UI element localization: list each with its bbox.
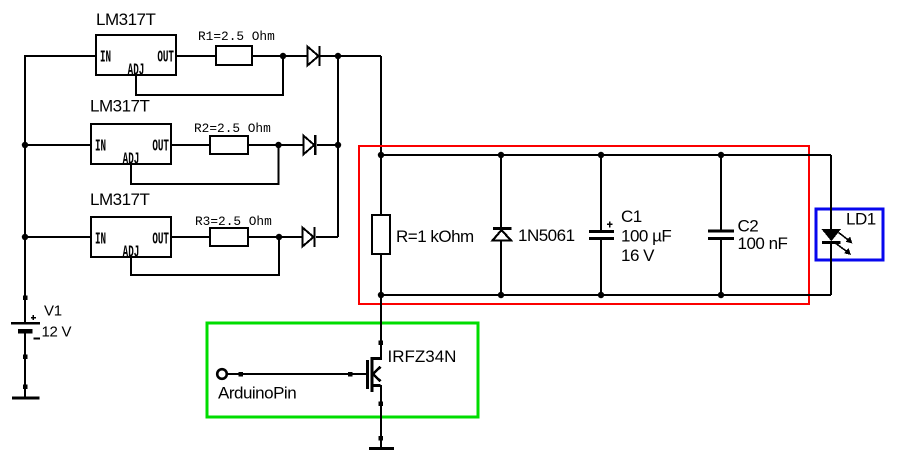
svg-text:R3=2.5 Ohm: R3=2.5 Ohm xyxy=(195,214,272,229)
node junction bottom bus at 1N5061 xyxy=(498,292,504,298)
resistor R3 body xyxy=(210,228,248,246)
diode D1 triangle xyxy=(308,47,319,66)
node junction left rail row3 xyxy=(22,234,28,240)
wire D2 to collector rail xyxy=(317,144,338,146)
transistor Q1 source lead xyxy=(373,384,381,387)
wire D3 to collector rail xyxy=(316,236,338,238)
diode D1 cathode bar xyxy=(318,46,320,66)
wire battery to ground xyxy=(24,333,26,397)
svg-text:IN: IN xyxy=(95,231,106,250)
node junction bottom bus at R xyxy=(378,292,384,298)
svg-text:OUT: OUT xyxy=(152,138,169,157)
svg-text:LM317T: LM317T xyxy=(96,10,155,29)
svg-text:IN: IN xyxy=(100,49,111,68)
node junction left rail row2 xyxy=(22,142,28,148)
diode D2 cathode bar xyxy=(314,135,316,155)
wire ADJ U1 feedback loop xyxy=(136,56,283,95)
svg-text:OUT: OUT xyxy=(157,49,174,68)
node junction R1 output / ADJ feedback xyxy=(280,53,286,59)
svg-text:V1: V1 xyxy=(44,303,62,320)
wire D1 to top node xyxy=(318,55,381,57)
wire drain up to bottom bus xyxy=(380,295,382,360)
wire top bus to capacitor C2 xyxy=(720,155,722,230)
wire diode collector rail vertical xyxy=(337,56,339,237)
svg-text:R2=2.5 Ohm: R2=2.5 Ohm xyxy=(194,121,271,136)
wire diode 1N5061 to bottom bus xyxy=(500,240,502,295)
pin label ADJ U3 xyxy=(123,244,140,263)
pin label OUT U3 xyxy=(152,231,169,250)
wire R3 to diode D3 xyxy=(248,236,303,238)
capacitor C1 bottom plate xyxy=(589,237,614,240)
wire end square near gate xyxy=(348,372,353,377)
svg-text:C2: C2 xyxy=(738,217,759,236)
diode 1N5061 cathode bar xyxy=(493,227,512,230)
battery V1 wire end square xyxy=(23,296,28,301)
svg-text:ArduinoPin: ArduinoPin xyxy=(218,384,296,403)
wire LED cathode to bottom bus xyxy=(830,244,832,295)
wire left rail to U3 IN xyxy=(25,236,91,238)
wire capacitor C1 to bottom bus xyxy=(600,240,602,295)
resistor R body vertical xyxy=(372,215,390,254)
svg-text:R=1 kOhm: R=1 kOhm xyxy=(396,227,474,246)
battery V1 positive plate xyxy=(11,322,40,325)
wire top bus rail xyxy=(381,154,831,156)
node junction diode outputs row2 xyxy=(335,142,341,148)
svg-text:R1=2.5 Ohm: R1=2.5 Ohm xyxy=(198,29,275,44)
wire top bus to resistor R xyxy=(380,155,382,215)
wire ArduinoPin to gate xyxy=(227,373,366,375)
resistor R1 body xyxy=(216,46,252,65)
svg-text:1N5061: 1N5061 xyxy=(518,226,575,245)
regulator U3 LM317T body xyxy=(91,217,171,257)
pin label IN U3 xyxy=(95,231,106,250)
node junction bottom bus at C1 xyxy=(598,292,604,298)
pin label IN U2 xyxy=(95,138,106,157)
node junction bottom bus at C2 xyxy=(718,292,724,298)
LED LD1 light arrow 2 xyxy=(836,244,850,254)
pin label ADJ U2 xyxy=(123,151,140,170)
red group box output filter network xyxy=(359,146,809,304)
diode D2 triangle xyxy=(303,136,314,155)
node junction diode outputs row1 xyxy=(335,53,341,59)
terminal ArduinoPin circle xyxy=(217,369,227,379)
battery V1 minus sign xyxy=(34,338,41,340)
svg-text:LM317T: LM317T xyxy=(90,97,149,116)
wire end square on source xyxy=(379,401,384,406)
wire end square below battery xyxy=(23,354,28,359)
node junction top bus at C1 xyxy=(598,152,604,158)
transistor Q1 channel bar xyxy=(371,357,374,392)
blue group box LED xyxy=(816,209,883,260)
wire end square on drain xyxy=(379,340,384,345)
wire ADJ U3 feedback loop xyxy=(131,237,279,275)
pin label OUT U1 xyxy=(157,49,174,68)
battery V1 negative plate xyxy=(18,329,33,334)
svg-text:12 V: 12 V xyxy=(42,324,72,341)
svg-text:100 nF: 100 nF xyxy=(738,234,788,253)
wire end square above left ground xyxy=(23,384,28,389)
wire source down to ground xyxy=(380,385,382,448)
wire U2 OUT to R2 xyxy=(171,144,210,146)
wire U3 OUT to R3 xyxy=(171,236,210,238)
ground symbol left xyxy=(12,397,40,400)
LED LD1 light arrow 1 xyxy=(839,233,852,243)
capacitor C2 top plate xyxy=(708,229,734,232)
capacitor C1 plus sign xyxy=(607,222,613,228)
regulator U1 LM317T body xyxy=(96,35,176,75)
wire resistor R to bottom bus xyxy=(380,254,382,295)
node junction R2 output / ADJ feedback xyxy=(275,142,281,148)
LED LD1 light arrow 2 head xyxy=(844,248,851,255)
pin label IN U1 xyxy=(100,49,111,68)
transistor Q1 body arrow upper xyxy=(373,367,381,374)
wire end square near ArduinoPin xyxy=(239,372,244,377)
wire ADJ U2 feedback loop xyxy=(131,145,279,184)
wire top bus to diode 1N5061 xyxy=(500,155,502,230)
battery V1 plus sign xyxy=(31,315,36,320)
regulator U2 LM317T body xyxy=(91,124,171,164)
capacitor C2 bottom plate xyxy=(708,237,734,240)
diode D3 triangle xyxy=(303,228,314,247)
wire end square above mosfet ground xyxy=(379,436,384,441)
wire U1 OUT to R1 xyxy=(176,55,216,57)
svg-text:IN: IN xyxy=(95,138,106,157)
capacitor C1 top plate xyxy=(589,230,614,233)
svg-text:LM317T: LM317T xyxy=(90,190,149,209)
node junction top bus at 1N5061 xyxy=(498,152,504,158)
wire top bus to capacitor C1 xyxy=(600,155,602,230)
transistor Q1 body arrow lower xyxy=(373,374,381,381)
svg-text:16 V: 16 V xyxy=(621,246,655,265)
wire left rail to U2 IN xyxy=(25,144,91,146)
transistor Q1 drain lead xyxy=(373,357,381,360)
svg-text:100 µF: 100 µF xyxy=(621,227,671,246)
wire top node down to LED bus xyxy=(380,56,382,155)
node junction R3 output / ADJ feedback xyxy=(276,234,282,240)
node junction top bus at C2 xyxy=(718,152,724,158)
svg-text:IRFZ34N: IRFZ34N xyxy=(388,347,457,366)
wire capacitor C2 to bottom bus xyxy=(720,240,722,295)
wire top bus down to LED anode xyxy=(830,155,832,230)
ground symbol mosfet xyxy=(369,447,394,450)
node junction top bus at R xyxy=(378,152,384,158)
LED LD1 cathode bar xyxy=(822,241,841,244)
diode 1N5061 triangle xyxy=(493,230,512,241)
pin label OUT U2 xyxy=(152,138,169,157)
wire bottom bus rail xyxy=(381,294,831,296)
transistor Q1 gate bar xyxy=(366,360,369,389)
resistor R2 body xyxy=(210,136,248,154)
diode D3 cathode bar xyxy=(313,227,315,247)
wire R2 to diode D2 xyxy=(248,144,304,146)
wire left supply rail from battery to IN pins xyxy=(25,56,96,323)
LED LD1 triangle xyxy=(823,230,841,241)
svg-text:C1: C1 xyxy=(621,207,642,226)
pin label ADJ U1 xyxy=(128,62,145,81)
svg-text:LD1: LD1 xyxy=(846,210,876,229)
green group box gate driver xyxy=(207,323,478,417)
svg-text:OUT: OUT xyxy=(152,231,169,250)
wire R1 to diode D1 xyxy=(252,55,308,57)
LED LD1 light arrow 1 head xyxy=(846,237,853,244)
